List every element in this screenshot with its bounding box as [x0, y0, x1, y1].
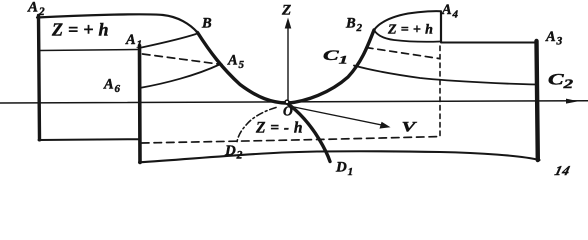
svg-text:A4: A4 [441, 2, 458, 20]
svg-text:C2: C2 [548, 72, 573, 91]
dashed hidden vertical under A4 [439, 46, 441, 136]
left panel top edge to cusp B [37, 14, 198, 32]
vertical edge under A1 [138, 46, 142, 163]
curve A1 to B [142, 34, 197, 48]
svg-text:A3: A3 [545, 29, 562, 47]
surface fold curve O to D1 [288, 104, 330, 162]
svg-text:A5: A5 [227, 53, 244, 71]
V arrowhead [380, 122, 391, 129]
right panel right edge (vertical under A3) [537, 41, 538, 160]
left panel left edge (vertical under A2) [39, 16, 40, 140]
svg-text:D1: D1 [335, 160, 353, 178]
svg-text:C1: C1 [323, 48, 348, 67]
svg-text:Z: Z [281, 3, 291, 19]
left panel line to A1 [40, 50, 138, 51]
node O small knot [285, 100, 289, 104]
left panel bottom edge [39, 138, 141, 141]
svg-text:Z=-h: Z=-h [255, 120, 307, 137]
dashed hidden line A1 to A5 [143, 54, 223, 65]
right panel top edge to A3 [441, 42, 535, 44]
right cap top arc B2 to A4 [374, 11, 441, 30]
svg-text:A1: A1 [125, 32, 142, 50]
wire x-axis [0, 101, 588, 103]
Z-axis arrowhead [285, 18, 292, 29]
curve C1 to C2 [354, 66, 537, 85]
bottom sheet front edge D2 D1 [139, 151, 540, 162]
svg-text:B: B [201, 16, 212, 32]
svg-text:O: O [283, 104, 293, 119]
surface fold curve B2 to O (right arm of bowl) [288, 30, 375, 103]
svg-text:Z=+h: Z=+h [51, 20, 114, 40]
svg-text:14: 14 [553, 163, 572, 177]
right cap bottom ellipse arc [374, 30, 441, 42]
dashed hidden line C1 to A4 edge [366, 48, 439, 59]
x-axis arrowhead [566, 99, 579, 104]
svg-text:D2: D2 [224, 143, 243, 161]
right cap right edge A4 (solid vertical) [440, 12, 442, 43]
wire Z-axis [287, 27, 289, 100]
surface fold curve B to O (left arm of bowl) [198, 33, 288, 104]
svg-text:Z=+h: Z=+h [387, 23, 437, 38]
svg-text:B2: B2 [345, 16, 362, 34]
svg-text:A6: A6 [103, 77, 120, 95]
curve A6 to A5 [140, 65, 220, 89]
svg-text:A2: A2 [27, 0, 45, 18]
svg-text:V: V [402, 120, 419, 136]
dashed arc of circle Z=-h [237, 108, 276, 143]
dashed hidden edge of bottom sheet [142, 137, 440, 143]
arrow V vector from O [292, 107, 385, 126]
